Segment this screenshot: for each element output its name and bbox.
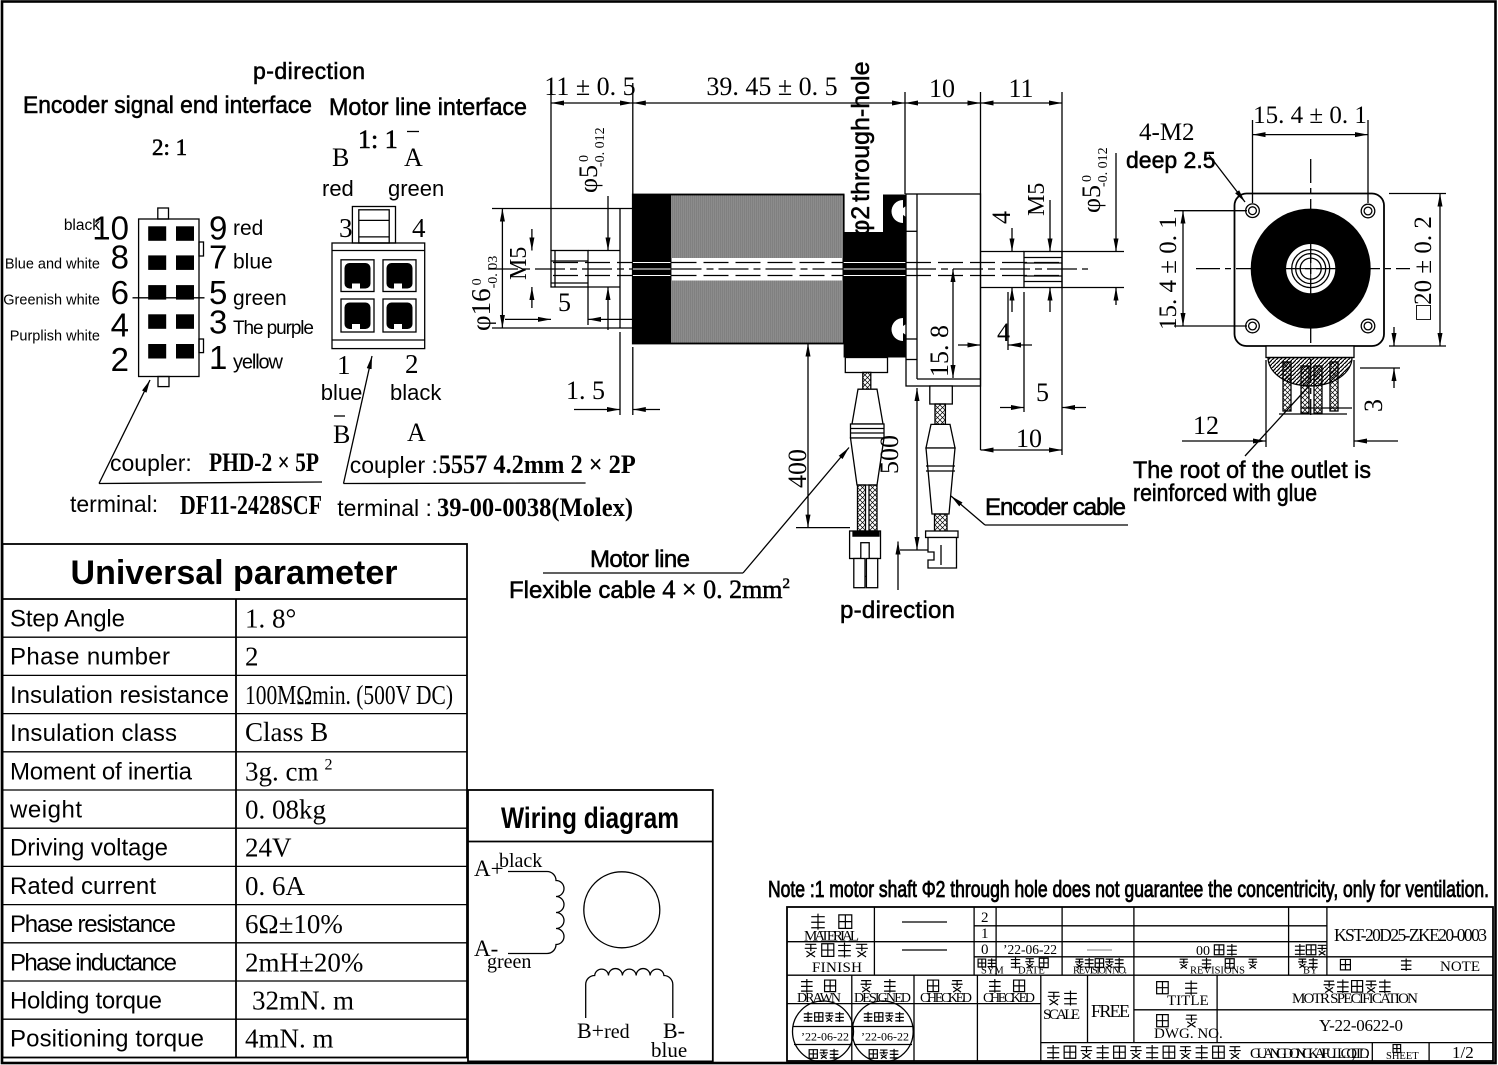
svg-text:5: 5 <box>1036 378 1049 407</box>
svg-text:MOTR SPECIFICATION: MOTR SPECIFICATION <box>1292 991 1418 1007</box>
svg-text:PHD-2 × 5P: PHD-2 × 5P <box>209 448 319 477</box>
svg-text:15. 4 ± 0. 1: 15. 4 ± 0. 1 <box>1253 102 1367 129</box>
main centerline dash-dot <box>488 268 1088 270</box>
svg-text:p-direction: p-direction <box>253 58 365 84</box>
cell TITLE header <box>1157 982 1169 994</box>
svg-text:blue: blue <box>651 1038 687 1062</box>
motor rear black block <box>844 195 906 358</box>
svg-text:Step Angle: Step Angle <box>10 606 125 633</box>
svg-text:6: 6 <box>111 274 129 311</box>
svg-text:4-M2: 4-M2 <box>1139 119 1195 146</box>
svg-text:15. 4 ± 0. 1: 15. 4 ± 0. 1 <box>1155 216 1182 330</box>
J1 leader line with arrow <box>99 482 322 484</box>
front shaft smooth part <box>588 250 620 252</box>
dimension 12 <box>1265 360 1267 447</box>
svg-text:REVISION NO.: REVISION NO. <box>1073 966 1127 977</box>
svg-text:Insulation class: Insulation class <box>10 720 177 747</box>
svg-text:10: 10 <box>929 74 955 103</box>
svg-text:yellow: yellow <box>233 352 284 374</box>
dimension 10 (rear housing) <box>905 102 981 104</box>
svg-text:1: 1 <box>209 339 227 376</box>
cell FINISH <box>805 944 817 957</box>
svg-text:0. 6A: 0. 6A <box>245 871 306 901</box>
svg-text:green: green <box>487 951 531 973</box>
stamp DESIGNED <box>852 1001 913 1062</box>
motor body front cap (black) <box>633 195 671 344</box>
front boss <box>492 209 633 329</box>
svg-text:B: B <box>332 143 349 172</box>
cell MATERIAL <box>811 914 825 930</box>
dimension 15.8 <box>952 269 954 378</box>
cell REVISIONS header <box>1179 959 1188 968</box>
svg-text:Phase inductance: Phase inductance <box>10 949 177 976</box>
svg-text:GUANGDONG KAIFULL CO. , LTD.: GUANGDONG KAIFULL CO. , LTD. <box>1250 1046 1370 1062</box>
revision dash <box>1087 949 1112 951</box>
svg-text:11 ± 0. 5: 11 ± 0. 5 <box>544 72 635 101</box>
svg-text:SYM: SYM <box>981 966 1004 977</box>
svg-text:CHECKED: CHECKED <box>983 991 1035 1006</box>
svg-text:M5: M5 <box>506 247 532 280</box>
svg-text:Moment of inertia: Moment of inertia <box>10 758 193 785</box>
svg-text:100MΩmin. (500V DC): 100MΩmin. (500V DC) <box>245 680 453 710</box>
svg-text:φ50-0. 012: φ50-0. 012 <box>574 127 608 193</box>
svg-text:Driving voltage: Driving voltage <box>10 835 168 862</box>
encoder cable <box>926 386 958 568</box>
cell CHECKED 2 <box>989 979 1001 993</box>
svg-text:φ2through-hole: φ2through-hole <box>847 61 875 236</box>
motor line cable <box>845 358 887 588</box>
connector J2 latch <box>352 207 395 244</box>
svg-text:B+red: B+red <box>577 1018 630 1043</box>
svg-text:TITLE: TITLE <box>1167 993 1209 1009</box>
svg-text:1. 8°: 1. 8° <box>245 604 296 634</box>
rotor face black circle <box>1251 209 1371 329</box>
svg-text:weight: weight <box>9 797 82 824</box>
phi2 hidden hole dashed lines <box>553 263 1062 276</box>
svg-text:7: 7 <box>209 239 227 276</box>
svg-text:Motor line interface: Motor line interface <box>329 94 527 121</box>
dimension square 20±0.2 (rotated) <box>1389 193 1446 195</box>
wire end marks <box>1302 407 1352 409</box>
svg-text:12: 12 <box>1193 411 1219 440</box>
top dimension extension lines <box>551 83 1062 455</box>
svg-text:BY: BY <box>1303 966 1318 977</box>
cell SCALE <box>1048 992 1060 1005</box>
cell REVISION NO header <box>1075 959 1083 968</box>
J1 wire colour labels left <box>3 217 100 345</box>
svg-text:MATERIAL: MATERIAL <box>804 929 859 945</box>
rear shaft <box>981 252 1063 288</box>
dimension 15.4 left (rotated) <box>1174 210 1247 212</box>
dimension 11±0.5 <box>551 102 633 104</box>
svg-text:39-00-0038(Molex): 39-00-0038(Molex) <box>437 493 633 522</box>
svg-text:39. 45 ± 0. 5: 39. 45 ± 0. 5 <box>706 72 837 101</box>
svg-text:DWG. NO.: DWG. NO. <box>1154 1026 1223 1042</box>
svg-text:Phase number: Phase number <box>10 644 170 671</box>
J2 pin cavities <box>341 260 416 332</box>
svg-text:4mN. m: 4mN. m <box>245 1024 334 1054</box>
svg-text:black: black <box>499 850 542 872</box>
svg-text:3: 3 <box>339 213 353 243</box>
front square body <box>1235 194 1385 347</box>
svg-text:Purplish white: Purplish white <box>10 329 100 345</box>
svg-text:0. 08kg: 0. 08kg <box>245 795 326 825</box>
title block vertical lines <box>852 907 1429 1061</box>
dimension 39.45±0.5 <box>633 102 905 104</box>
svg-text:φ160-0. 03: φ160-0. 03 <box>466 256 501 331</box>
cell SYM <box>978 959 986 967</box>
svg-text:32mN. m: 32mN. m <box>252 986 354 1016</box>
svg-text:2: 2 <box>405 349 419 379</box>
svg-text:5557 4.2mm 2 × 2P: 5557 4.2mm 2 × 2P <box>439 450 636 479</box>
svg-text:black: black <box>390 380 442 405</box>
svg-text:Rated current: Rated current <box>10 873 156 900</box>
svg-text:2: 2 <box>981 910 989 926</box>
svg-text:1: 1 <box>337 350 351 380</box>
svg-text:φ50-0. 012: φ50-0. 012 <box>1077 147 1111 213</box>
svg-text:4: 4 <box>111 307 129 344</box>
svg-text:SHEET: SHEET <box>1386 1051 1419 1062</box>
table outer border <box>3 544 468 1058</box>
svg-text:3: 3 <box>209 303 227 340</box>
cell company <box>1047 1045 1370 1062</box>
svg-text:’22-06-22: ’22-06-22 <box>801 1030 849 1044</box>
svg-text:red: red <box>322 176 354 201</box>
title block outer border <box>787 907 1493 1061</box>
svg-text:Holding torque: Holding torque <box>10 988 162 1015</box>
white screw symbols on rear block <box>892 200 903 223</box>
svg-text:1/2: 1/2 <box>1452 1043 1474 1062</box>
svg-text:blue: blue <box>233 251 273 274</box>
svg-text:blue: blue <box>321 380 363 405</box>
shaft circles <box>1292 250 1330 288</box>
svg-text:500: 500 <box>875 435 904 474</box>
cell BY (xu yuanhao) <box>1295 944 1305 956</box>
connector J1 body (PHD 2x5) <box>133 208 205 387</box>
title block horizontal lines <box>787 926 1493 1043</box>
svg-text:DATE: DATE <box>1018 966 1045 977</box>
rotor circle <box>584 872 660 948</box>
svg-text:4: 4 <box>987 211 1016 224</box>
svg-text:Encoder signal end interface: Encoder signal end interface <box>23 92 312 119</box>
svg-text:black: black <box>64 217 100 234</box>
svg-text:FREE: FREE <box>1091 1001 1130 1021</box>
svg-text:15. 8: 15. 8 <box>925 325 954 377</box>
svg-text:3g. cm2: 3g. cm2 <box>245 756 333 786</box>
svg-text:3: 3 <box>1359 399 1388 412</box>
mounting holes 4-M2 <box>1246 204 1375 333</box>
svg-text:400: 400 <box>783 449 812 488</box>
svg-text:CHECKED: CHECKED <box>920 991 972 1006</box>
svg-text:2mH±20%: 2mH±20% <box>245 947 363 977</box>
svg-text:0: 0 <box>981 942 989 958</box>
svg-text:The purple: The purple <box>233 318 314 339</box>
svg-text:6Ω±10%: 6Ω±10% <box>245 909 343 939</box>
svg-text:DF11-2428SCF: DF11-2428SCF <box>180 490 322 520</box>
label p-direction (bottom) <box>897 542 899 591</box>
cell motor specification <box>1324 981 1335 993</box>
outlet wires <box>1283 362 1338 413</box>
outlet dome (glue) <box>1268 358 1352 386</box>
J2 leader line with arrow <box>344 482 586 485</box>
svg-text:NOTE: NOTE <box>1440 959 1480 975</box>
svg-text:Insulation resistance: Insulation resistance <box>10 682 229 709</box>
table values <box>245 604 453 1054</box>
svg-text:A: A <box>404 143 423 172</box>
svg-text:terminal :: terminal : <box>337 495 432 521</box>
svg-text:red: red <box>233 217 263 240</box>
svg-text:2: 2 <box>245 642 259 672</box>
svg-text:SCALE: SCALE <box>1043 1007 1080 1023</box>
svg-text:p-direction: p-direction <box>840 597 955 624</box>
coil A <box>508 872 564 954</box>
rear housing <box>906 194 981 386</box>
svg-text:terminal:: terminal: <box>70 491 158 517</box>
J1 pin numbers right <box>209 210 227 376</box>
svg-text:24V: 24V <box>245 833 292 863</box>
dimension 3 <box>1360 367 1400 369</box>
svg-text:1: 1 <box>981 926 989 942</box>
svg-text:8: 8 <box>111 239 129 276</box>
svg-text:11: 11 <box>1008 74 1033 103</box>
svg-text:Y-22-0622-0: Y-22-0622-0 <box>1319 1016 1403 1035</box>
cell NOTE header <box>1340 959 1350 969</box>
dimension 400 <box>807 344 809 528</box>
cell DRAWN <box>801 979 813 993</box>
dimension phi16 <box>501 209 503 329</box>
svg-text:4: 4 <box>412 213 426 243</box>
svg-text:Class B: Class B <box>245 717 328 747</box>
svg-text:reinforced with glue: reinforced with glue <box>1133 480 1317 507</box>
J1 wire colour labels right <box>233 217 314 374</box>
svg-text:coupler :: coupler : <box>350 452 438 478</box>
cable outlet cap <box>1266 346 1354 358</box>
glue note leader <box>1245 386 1309 456</box>
dimension 11 (rear shaft) <box>981 102 1063 104</box>
svg-text:coupler:: coupler: <box>110 450 192 476</box>
svg-text:Flexible cable 4 × 0. 2mm2: Flexible cable 4 × 0. 2mm2 <box>509 575 790 604</box>
svg-text:10: 10 <box>1016 424 1042 453</box>
front shaft M5 thread <box>551 251 620 326</box>
svg-text:1. 5: 1. 5 <box>566 376 605 405</box>
dimension 4 (rear, rotated) <box>1011 228 1013 252</box>
svg-text:REVISIONS: REVISIONS <box>1190 966 1245 977</box>
svg-text:Phase resistance: Phase resistance <box>10 911 176 938</box>
svg-text:green: green <box>233 287 287 310</box>
svg-text:Motor line: Motor line <box>590 546 690 573</box>
svg-text:green: green <box>388 176 444 201</box>
svg-text:□20 ± 0. 2: □20 ± 0. 2 <box>1410 216 1437 320</box>
cell DATE header <box>1011 957 1020 968</box>
svg-text:B: B <box>333 420 350 449</box>
svg-text:1: 1: 1: 1 <box>358 125 398 154</box>
dimension 15.4 top <box>1252 120 1254 203</box>
svg-text:Blue and white: Blue and white <box>5 257 100 273</box>
svg-text:FINISH: FINISH <box>812 960 862 976</box>
svg-text:Note :1 motor shaft Φ2 through: Note :1 motor shaft Φ2 through hole does… <box>768 876 1489 902</box>
svg-text:KST-20D25-ZKE20-0003: KST-20D25-ZKE20-0003 <box>1334 925 1487 945</box>
J1 pin numbers left <box>92 210 129 379</box>
dimension 500 <box>916 388 918 550</box>
svg-text:Wiring diagram: Wiring diagram <box>501 802 679 835</box>
J1 pins (10 black squares) <box>148 226 194 358</box>
dimension M5 rear <box>1049 200 1051 252</box>
leader to cable <box>743 448 849 574</box>
phi2 leader tick <box>860 238 862 258</box>
dimension phi5 rear <box>1115 153 1117 252</box>
svg-text:A: A <box>407 418 426 447</box>
dimension M5 front <box>531 229 533 251</box>
coil B <box>586 969 673 1018</box>
cell DWG NO header <box>1157 1015 1169 1027</box>
J2 pins black <box>345 263 413 329</box>
rear shaft extension lines right <box>1062 251 1124 253</box>
svg-text:’22-06-22: ’22-06-22 <box>861 1030 909 1044</box>
connector J1 midline <box>133 297 205 299</box>
motor body laminations (hatched) <box>671 195 844 344</box>
connector J2 body (5557 2x2) <box>332 243 425 349</box>
table row lines <box>3 637 468 1019</box>
cell SHEET <box>1393 1045 1401 1053</box>
wiring box <box>468 790 713 1061</box>
svg-text:Positioning torque: Positioning torque <box>10 1026 204 1053</box>
svg-text:Greenish white: Greenish white <box>3 293 100 309</box>
dimension phi5 front <box>607 196 609 251</box>
cell DESIGNED <box>861 981 872 993</box>
centerline clearing band over hatch <box>672 258 843 281</box>
phi2 text white notch <box>845 195 883 233</box>
svg-text:Universal parameter: Universal parameter <box>71 554 398 592</box>
white centerlines across black caps <box>633 263 906 276</box>
svg-text:2: 2 <box>111 341 129 378</box>
svg-text:Encoder cable: Encoder cable <box>985 494 1126 521</box>
front view centerlines <box>1196 159 1410 415</box>
table column divider <box>235 599 237 1058</box>
cell CHECKED 1 <box>928 980 939 992</box>
svg-text:M5: M5 <box>1024 183 1050 216</box>
svg-text:’22-06-22: ’22-06-22 <box>1003 942 1057 957</box>
table header separator <box>3 598 468 600</box>
stamp DRAWN <box>793 1001 854 1062</box>
svg-text:deep 2.5: deep 2.5 <box>1126 147 1216 173</box>
svg-text:00: 00 <box>1196 944 1210 959</box>
svg-text:DESIGNED: DESIGNED <box>854 991 911 1006</box>
svg-text:2: 1: 2: 1 <box>152 135 187 160</box>
table labels <box>9 606 229 1053</box>
phi2 through-hole rotated label <box>847 61 875 236</box>
svg-text:5: 5 <box>558 288 571 317</box>
